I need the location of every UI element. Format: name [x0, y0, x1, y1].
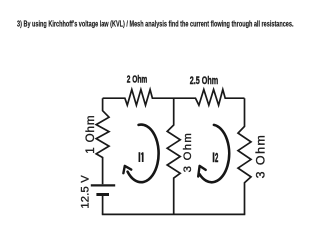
svg-text:1 Ohm: 1 Ohm [84, 116, 97, 154]
battery V1 plate short [96, 193, 109, 196]
resistor R5 3 Ohm right branch [238, 98, 251, 214]
label I1 [139, 152, 143, 162]
resistor R3 1 Ohm left branch [96, 98, 109, 184]
label I2 [213, 150, 219, 165]
resistor R4 3 Ohm middle branch [167, 98, 180, 214]
svg-text:12.5 V: 12.5 V [80, 175, 92, 209]
mesh current arrow I2 [198, 125, 229, 182]
battery V1 plate long [91, 184, 115, 186]
svg-text:3 Ohm: 3 Ohm [182, 133, 194, 172]
wire top with resistors R1 R2 [103, 90, 245, 106]
svg-text:2.5 Ohm: 2.5 Ohm [190, 75, 219, 87]
wire battery to bottom [102, 196, 104, 214]
svg-text:3 Ohm: 3 Ohm [253, 135, 267, 178]
svg-text:2: 2 [215, 150, 218, 165]
svg-text:3) By using Kirchhoff's voltag: 3) By using Kirchhoff's voltage law (KVL… [17, 19, 294, 29]
mesh current arrow I1 [123, 125, 158, 183]
wire bottom [102, 213, 246, 215]
svg-text:2 Ohm: 2 Ohm [127, 74, 148, 85]
